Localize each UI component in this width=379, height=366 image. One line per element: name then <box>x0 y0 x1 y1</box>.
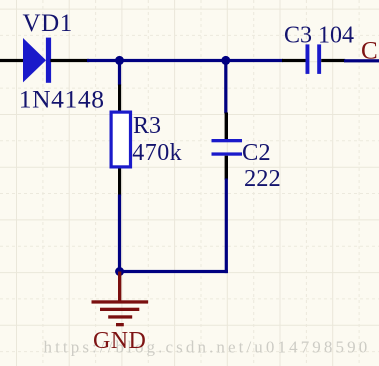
resistor R3 pin 1 lead (top) <box>118 85 121 112</box>
wire: bottom horizontal rail <box>118 270 228 273</box>
svg-text:GND: GND <box>93 328 146 354</box>
wire: C2 bottom down to bottom rail corner <box>225 179 228 274</box>
label R3 designator <box>133 113 161 139</box>
ground GND symbol <box>92 300 149 326</box>
diode VD1 pin 2 lead (anode, left) <box>0 59 23 62</box>
resistor R3 pin 2 lead (bottom) <box>118 169 121 196</box>
label 222 value <box>244 165 281 192</box>
capacitor C2 pin 1 lead (top) <box>225 113 228 140</box>
capacitor C2 <box>212 139 243 156</box>
wire: R3 bottom to bottom rail <box>118 195 121 274</box>
wire: stub down from node B <box>224 60 227 113</box>
capacitor C3 <box>306 44 322 74</box>
label VD1 designator <box>23 10 73 37</box>
wire: top horizontal from diode to C3 <box>87 59 283 62</box>
resistor R3 <box>111 112 130 167</box>
label GND net <box>93 328 146 354</box>
watermark https://blog.csdn.net/u014798590 <box>44 338 371 357</box>
wire: from C3 to right edge <box>344 59 379 62</box>
label 1N4148 value <box>19 85 105 114</box>
diode VD1 pin 1 lead (cathode, right) <box>50 59 89 62</box>
junction node B (top right, to C2) <box>221 56 230 65</box>
label C2 designator <box>242 139 271 166</box>
junction node A (top left, to R3) <box>115 56 124 65</box>
capacitor C3 pin 1 lead (left) <box>282 59 306 62</box>
diode VD1 <box>23 38 51 83</box>
svg-text:222: 222 <box>244 165 281 192</box>
svg-text:C: C <box>361 37 378 64</box>
label net C <box>361 37 378 64</box>
svg-text:470k: 470k <box>132 140 182 166</box>
svg-text:C3 104: C3 104 <box>284 22 354 48</box>
svg-text:C2: C2 <box>242 139 271 166</box>
svg-text:1N4148: 1N4148 <box>19 85 105 114</box>
capacitor C3 pin 2 lead (right) <box>321 59 345 62</box>
label 470k value <box>132 140 182 166</box>
svg-text:R3: R3 <box>133 113 161 139</box>
wire: stub down from node A <box>118 60 121 85</box>
svg-text:VD1: VD1 <box>23 10 73 37</box>
capacitor C2 pin 2 lead (bottom) <box>225 156 228 180</box>
label C3 104 <box>284 22 354 48</box>
junction node GNDJ (bottom, to ground) <box>115 267 124 276</box>
ground GND lead <box>118 272 121 303</box>
